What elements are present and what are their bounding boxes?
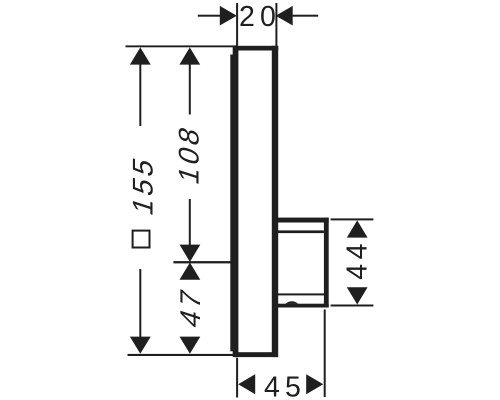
- dim44 arrow bottom: [347, 287, 368, 304]
- valve body inner line upper: [278, 230, 324, 233]
- dim108 arrow top: [179, 47, 200, 64]
- svg-text:45: 45: [264, 371, 306, 400]
- dim155 square symbol: [133, 231, 150, 248]
- escutcheon plate left edge: [233, 46, 239, 357]
- dim155 arrow top: [130, 47, 151, 64]
- dim155 label background: [127, 126, 154, 269]
- dim20 arrow left: [220, 6, 237, 26]
- dim45 extension line right: [324, 310, 326, 398]
- dim108 line: [189, 62, 191, 248]
- dim20 tail line left: [198, 15, 221, 17]
- escutcheon plate front lip: [230, 55, 237, 352]
- left extension line bottom: [128, 354, 237, 356]
- escutcheon plate right edge: [272, 46, 278, 357]
- dim47 arrow top: [180, 263, 201, 280]
- escutcheon plate bottom edge: [234, 352, 278, 357]
- valve body right edge: [324, 218, 329, 308]
- dim47 arrow bottom: [180, 337, 201, 354]
- dim45 extension line left: [236, 358, 238, 398]
- junction extension line: [173, 261, 232, 263]
- valve body inner line lower: [278, 293, 325, 295]
- dim45 arrow right: [306, 374, 323, 394]
- escutcheon plate top edge: [235, 46, 279, 51]
- dim20 arrow right: [276, 6, 293, 26]
- svg-text:155: 155: [128, 151, 159, 219]
- dim108 label background: [177, 115, 203, 200]
- svg-text:44: 44: [341, 239, 373, 280]
- dim20 tail line right: [292, 15, 319, 17]
- dim44 extension line bottom: [331, 305, 374, 307]
- dim20 extension line right: [275, 3, 277, 46]
- dim44 arrow top: [347, 220, 368, 237]
- dim45 arrow left: [238, 374, 255, 394]
- valve body screw bump: [285, 301, 298, 304]
- left extension line top: [126, 45, 238, 47]
- valve body bottom edge: [278, 304, 329, 308]
- dim155 line: [139, 62, 141, 338]
- dim44 extension line top: [331, 218, 374, 220]
- svg-text:20: 20: [239, 1, 281, 33]
- dim20 extension line left: [236, 3, 238, 46]
- svg-text:47: 47: [176, 283, 207, 332]
- dim155 arrow bottom: [130, 337, 151, 354]
- valve body top edge: [278, 218, 329, 223]
- svg-text:108: 108: [174, 120, 205, 188]
- dim108 arrow bottom: [180, 245, 201, 262]
